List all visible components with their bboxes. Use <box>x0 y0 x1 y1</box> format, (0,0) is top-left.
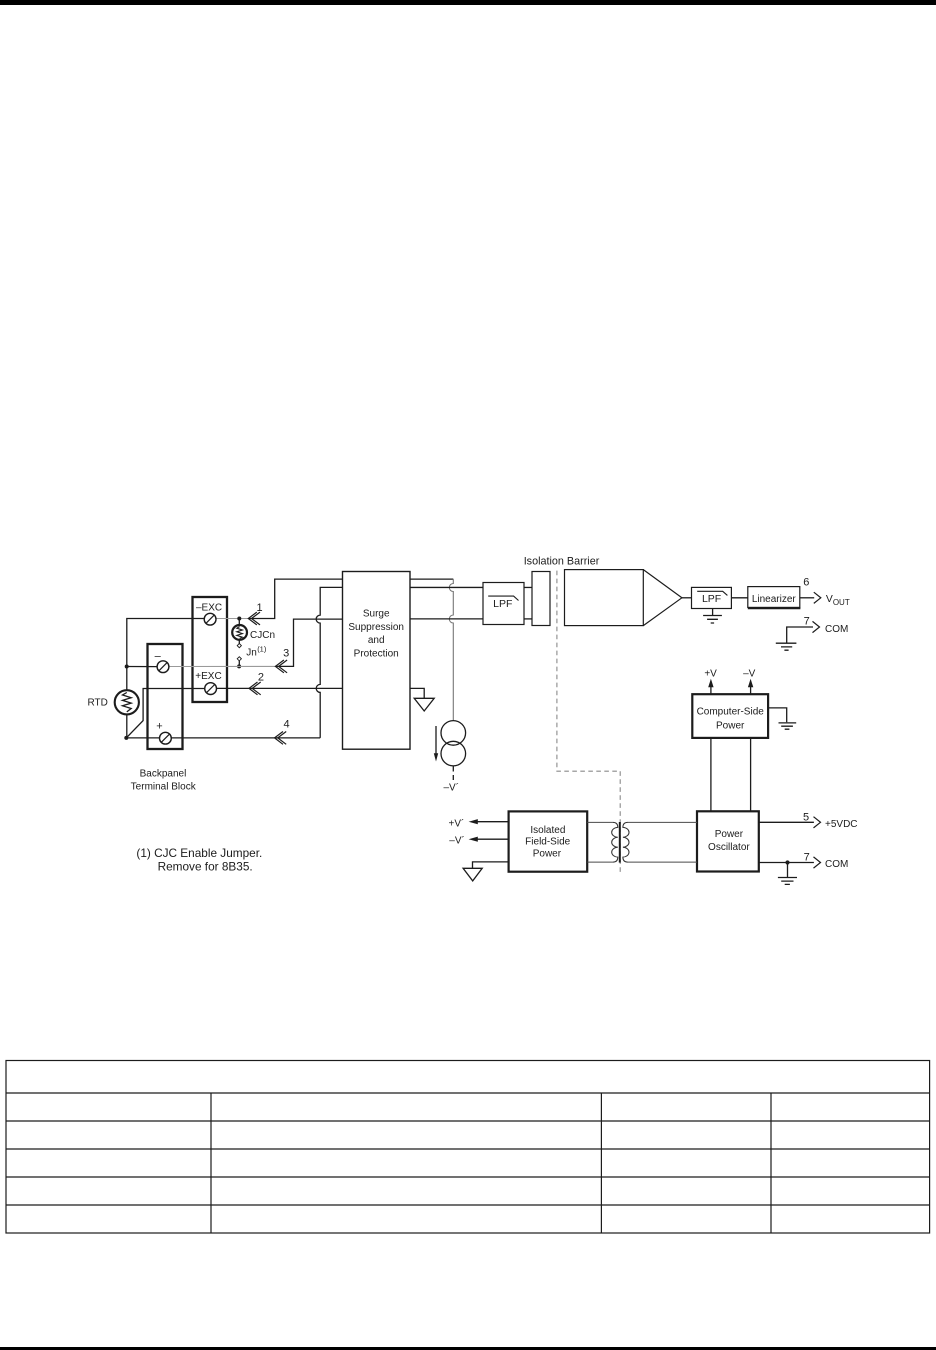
Power Oscillator block <box>697 811 759 871</box>
table row line 5 <box>6 1204 930 1206</box>
wire 2: from +EXC screw right to surge block <box>216 687 342 689</box>
Computer-Side Power block <box>692 694 768 738</box>
svg-text:Linearizer: Linearizer <box>752 594 797 605</box>
svg-text:+: + <box>156 721 162 733</box>
jumper terminal diamond upper <box>237 644 241 648</box>
current source circles <box>441 721 466 746</box>
svg-text:(1): (1) <box>257 645 267 654</box>
note (1) CJC Enable Jumper <box>136 846 262 873</box>
wire: computer-side power to ground <box>768 708 787 722</box>
DIAGRAM <box>88 572 411 874</box>
svg-text:7: 7 <box>804 852 810 864</box>
transformer: secondary winding <box>623 822 629 862</box>
ground stem and 3-bar at COM bottom <box>778 863 797 885</box>
svg-text:Oscillator: Oscillator <box>708 842 750 853</box>
wire: field-side power to field ground <box>473 862 509 868</box>
pin 6 arrow <box>814 592 821 603</box>
svg-text:+V: +V <box>704 668 717 679</box>
table row line 2 <box>6 1120 930 1122</box>
TABLE <box>6 1061 930 1234</box>
wire 1: grey segment from -EXC screw to connector chevron <box>216 618 249 620</box>
table column divider 3 <box>770 1093 772 1233</box>
svg-text:Computer-Side: Computer-Side <box>697 707 765 718</box>
wire: LPF to isolation bar upper <box>524 586 532 588</box>
svg-text:and: and <box>368 635 385 646</box>
svg-text:Isolation Barrier: Isolation Barrier <box>524 555 600 567</box>
LPF symbol overline <box>488 596 518 600</box>
svg-text:Backpanel: Backpanel <box>140 768 187 779</box>
+V arrow up <box>710 686 712 695</box>
svg-text:Protection: Protection <box>354 649 399 660</box>
svg-text:4: 4 <box>283 719 289 731</box>
label Backpanel Terminal Block <box>131 768 197 792</box>
svg-text:RTD: RTD <box>88 698 108 709</box>
wire: pin 5 +5VDC <box>759 821 814 823</box>
wire: RTD top vertical up to -EXC wire <box>127 619 205 691</box>
wire: excitation output from surge block top right <box>410 578 453 580</box>
wire: excitation vertical down to current source with hops <box>449 579 453 721</box>
wire: surge block to field ground <box>410 688 424 698</box>
screw terminal: backpanel minus <box>157 661 169 673</box>
table column divider 2 <box>600 1093 602 1233</box>
wire: RTD bottom vertical <box>126 714 128 738</box>
svg-text:–: – <box>155 651 162 663</box>
transformer: primary winding <box>587 822 613 862</box>
node: junction dot CJC top <box>237 617 241 621</box>
screw terminal: backpanel plus <box>160 732 172 744</box>
pin 7 arrow (top) <box>813 621 820 632</box>
dashed stub below current source <box>452 766 454 780</box>
svg-text:Power: Power <box>715 829 744 840</box>
wire: minus terminal to RTD vertical (tee) <box>126 666 157 668</box>
current direction arrow <box>435 726 437 754</box>
DIAGRAM RIGHT <box>410 555 858 884</box>
wire: Linearizer to pin 6 <box>800 597 814 599</box>
wire: CJC bottom stub to jumper <box>238 640 240 644</box>
connector chevron pin 4 <box>275 732 287 745</box>
Isolated Field-Side Power block <box>509 811 588 871</box>
table column divider 1 <box>210 1093 212 1233</box>
CJC sensor CJCn circle with zigzag <box>232 625 247 640</box>
svg-text:7: 7 <box>804 615 810 627</box>
svg-text:5: 5 <box>803 812 809 824</box>
svg-text:Surge: Surge <box>363 609 390 620</box>
bottom footer bar <box>0 1347 936 1350</box>
wire: amp to LPF2 <box>682 597 692 599</box>
backpanel terminal block box <box>148 644 183 749</box>
ground (field, open triangle) at surge block <box>414 698 434 711</box>
table outer border <box>6 1061 930 1234</box>
svg-text:COM: COM <box>825 624 848 635</box>
demodulator block with amplifier triangle <box>565 570 644 626</box>
wire 4 riser with hops over wires 3 and 2 <box>316 587 342 738</box>
RTD sensor circle with zigzag <box>115 690 139 714</box>
svg-text:–V: –V <box>743 668 756 679</box>
wire and arrow: +V' output <box>478 821 509 823</box>
Linearizer block <box>748 587 800 608</box>
top header bar <box>0 0 936 5</box>
svg-text:1: 1 <box>256 602 262 614</box>
wire 3: black segment, up and into surge block <box>275 619 342 666</box>
wire and arrow: -V' output <box>478 838 509 840</box>
label Surge Suppression and Protection <box>348 609 404 660</box>
svg-text:6: 6 <box>803 577 809 589</box>
LPF2 symbol overline <box>697 591 727 595</box>
svg-text:+5VDC: +5VDC <box>825 819 858 830</box>
wire: +V rail down to power oscillator <box>710 738 712 811</box>
svg-text:Remove for 8B35.: Remove for 8B35. <box>158 859 253 873</box>
wire: COM pin 7 top with ground <box>787 627 813 643</box>
transformer: core bar <box>619 822 621 863</box>
wire: -V rail down to power oscillator <box>750 738 752 811</box>
table row line 4 <box>6 1176 930 1178</box>
node: junction dot at minus-wire tee <box>125 665 129 669</box>
svg-text:COM: COM <box>825 859 848 870</box>
svg-text:–EXC: –EXC <box>196 603 222 614</box>
ground (field, open triangle) at field-side power <box>463 868 482 881</box>
excitation terminal box (-EXC/+EXC) <box>193 597 228 702</box>
wire: CJC top stub <box>238 619 240 626</box>
svg-text:3: 3 <box>283 648 289 660</box>
table row line 1 (header bottom) <box>6 1092 930 1094</box>
wire: surge to LPF upper <box>410 586 483 588</box>
wire 4: from RTD bottom junction through + screw to riser, up into surge block <box>126 737 320 739</box>
svg-text:+EXC: +EXC <box>195 671 221 682</box>
pin 5 arrow <box>814 817 821 828</box>
wire 1: black segment, up and over to surge block <box>248 579 342 618</box>
svg-text:–V´: –V´ <box>449 835 465 847</box>
wire: LPF to isolation bar lower <box>524 618 532 620</box>
svg-text:Isolated: Isolated <box>530 825 565 836</box>
svg-text:+V´: +V´ <box>449 818 465 830</box>
jumper terminal diamond lower <box>237 657 241 661</box>
svg-text:Terminal Block: Terminal Block <box>131 782 197 793</box>
svg-text:LPF: LPF <box>493 598 512 610</box>
screw terminal: +EXC <box>205 683 217 695</box>
wire 2: from +EXC screw left, down, diagonal to RTD bottom junction <box>126 689 205 738</box>
node: junction dot at RTD bottom tee <box>124 736 128 740</box>
surge suppression block box <box>343 572 411 750</box>
wire: pin 7 COM bottom <box>759 862 814 864</box>
svg-text:Power: Power <box>533 848 562 859</box>
ground (3-bar) at COM top <box>776 643 797 650</box>
node: junction dot CJC bottom on wire 3 <box>237 664 241 668</box>
svg-text:Field-Side: Field-Side <box>525 836 570 847</box>
wire: surge to LPF lower <box>410 618 483 620</box>
connector chevron pin 1 <box>248 612 260 625</box>
isolation barrier dashed line <box>557 571 620 875</box>
wire: LPF2 to Linearizer <box>731 597 747 599</box>
svg-text:Jn: Jn <box>246 647 257 658</box>
svg-text:2: 2 <box>258 671 264 683</box>
table row line 3 <box>6 1148 930 1150</box>
svg-text:Power: Power <box>716 720 745 731</box>
svg-text:Suppression: Suppression <box>348 622 404 633</box>
wire 3: grey segment from minus screw to chevron <box>169 665 276 667</box>
connector chevron pin 3 <box>275 660 287 673</box>
svg-text:(1) CJC Enable Jumper.: (1) CJC Enable Jumper. <box>136 846 262 860</box>
LPF block (computer side) <box>692 587 732 608</box>
wire: jumper to wire3 stub <box>238 661 240 667</box>
ground (3-bar) under LPF2 <box>703 609 722 624</box>
svg-text:LPF: LPF <box>702 593 721 605</box>
connector chevron pin 2 <box>249 682 261 695</box>
svg-text:CJCn: CJCn <box>250 630 275 641</box>
LPF block (field side) <box>483 583 524 625</box>
ground (3-bar) at computer-side power <box>779 723 797 729</box>
-V arrow up <box>750 686 752 695</box>
svg-text:VOUT: VOUT <box>826 594 850 607</box>
node: junction dot on COM wire <box>785 860 789 864</box>
pin 7 arrow (bottom) <box>814 857 821 868</box>
screw terminal: -EXC <box>204 613 216 625</box>
isolation barrier coupling bar <box>532 572 550 626</box>
svg-text:–V´: –V´ <box>444 782 460 794</box>
